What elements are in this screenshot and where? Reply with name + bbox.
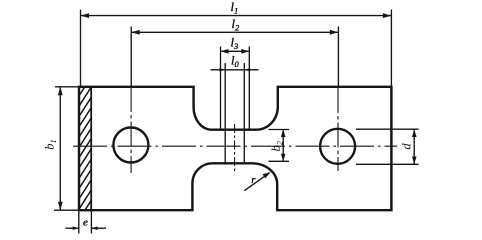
dimension l1 line [81, 15, 392, 17]
left hole vertical centerline / l2 extension [130, 27, 132, 87]
dimension b2 extension lines [269, 129, 290, 131]
horizontal centerline [73, 145, 397, 147]
svg-text:l0: l0 [231, 54, 239, 70]
leader r [244, 173, 269, 191]
dimension l2 line [131, 31, 338, 33]
left hole [113, 128, 148, 163]
dimension b1 line [59, 87, 61, 210]
right hole [320, 129, 355, 164]
dimension l3 line [221, 50, 250, 52]
dimension l1 extension lines [80, 10, 82, 87]
svg-text:l3: l3 [231, 36, 239, 52]
svg-text:e: e [83, 217, 88, 229]
dimension d extension lines [356, 128, 419, 130]
dimension b1 extension lines [55, 86, 79, 88]
svg-text:l1: l1 [231, 0, 239, 16]
svg-text:b2: b2 [269, 140, 285, 151]
specimen outline [79, 87, 391, 210]
svg-text:d: d [399, 143, 413, 150]
dimension e extension lines [78, 211, 80, 234]
dimension b2 line [282, 130, 284, 162]
svg-text:r: r [251, 174, 256, 186]
hatching of grip strip [77, 74, 93, 233]
neck vertical centerline [234, 124, 236, 171]
dimension e line with outside arrows [66, 227, 79, 229]
dimension l0 line with outside arrows [211, 69, 259, 71]
grip-end hatched strip right border [90, 87, 92, 210]
dimension l0 gauge lines [224, 63, 226, 163]
svg-text:b1: b1 [43, 139, 59, 150]
dimension d line [413, 129, 415, 164]
svg-text:l2: l2 [232, 17, 240, 33]
dimension l3 extension lines [220, 47, 222, 131]
right hole vertical centerline / l2 extension [337, 27, 339, 87]
